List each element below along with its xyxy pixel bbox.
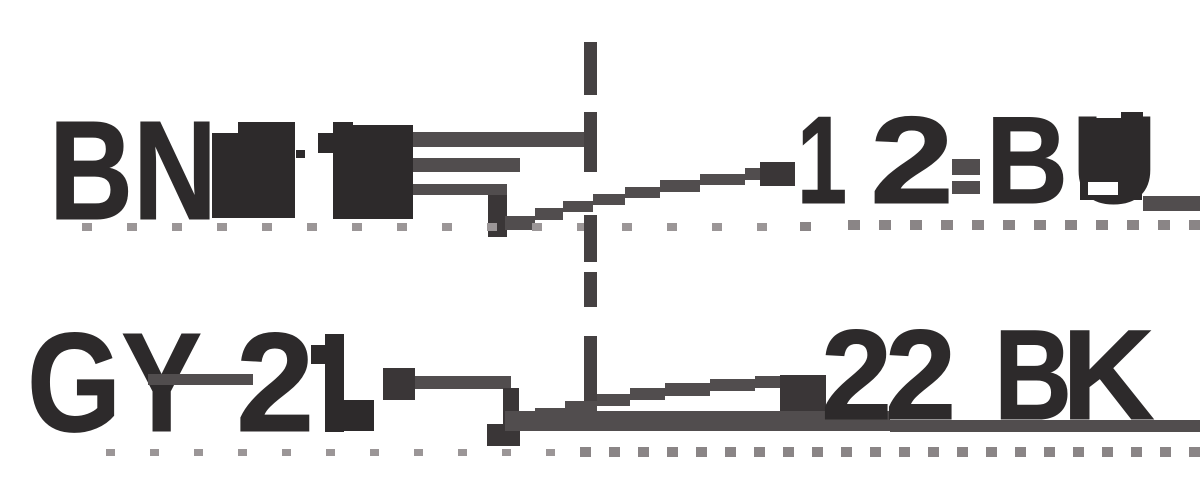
svg-text:B: B bbox=[986, 92, 1068, 230]
pin 1 digit bbox=[318, 122, 353, 219]
movable arm contact 21-22 bbox=[505, 376, 790, 428]
wire lead 22 bbox=[780, 375, 826, 413]
dash between GY and 21 bbox=[148, 374, 253, 385]
U glyph fill bbox=[1080, 118, 1142, 200]
dotted separator bottom bbox=[106, 447, 1200, 457]
fixed contact tick bbox=[488, 195, 507, 237]
svg-text:1: 1 bbox=[797, 92, 847, 230]
wire lead 11 bbox=[413, 132, 585, 147]
svg-text:2: 2 bbox=[885, 304, 956, 447]
junction blob 21 bbox=[383, 368, 415, 400]
actuator dashed line bbox=[584, 42, 597, 405]
travel rule thin bbox=[890, 420, 1200, 432]
terminal block after 21 bbox=[341, 400, 374, 431]
fixed contact bar upper bbox=[413, 158, 520, 172]
fixed contact foot bbox=[487, 424, 520, 446]
dotted separator top bbox=[82, 220, 1200, 231]
wire lead 21 bbox=[415, 376, 511, 389]
svg-text:B: B bbox=[994, 304, 1072, 447]
fixed contact stub bbox=[503, 388, 519, 431]
stray pixel dot bbox=[296, 150, 305, 158]
terminal 11 block bbox=[212, 122, 295, 218]
svg-text:K: K bbox=[1062, 304, 1154, 447]
equals marks between 2 and B bbox=[952, 159, 980, 175]
svg-text:2: 2 bbox=[870, 92, 954, 230]
fixed contact bar lower bbox=[413, 184, 507, 195]
terminal block after 1 bbox=[352, 125, 413, 219]
travel rule thick bbox=[505, 411, 890, 431]
svg-text:2: 2 bbox=[821, 304, 892, 447]
svg-text:2: 2 bbox=[236, 303, 314, 461]
wire lead 12 bbox=[760, 162, 795, 186]
wire rule after BU bbox=[1143, 196, 1200, 211]
movable arm contact 11-12 bbox=[505, 168, 785, 230]
